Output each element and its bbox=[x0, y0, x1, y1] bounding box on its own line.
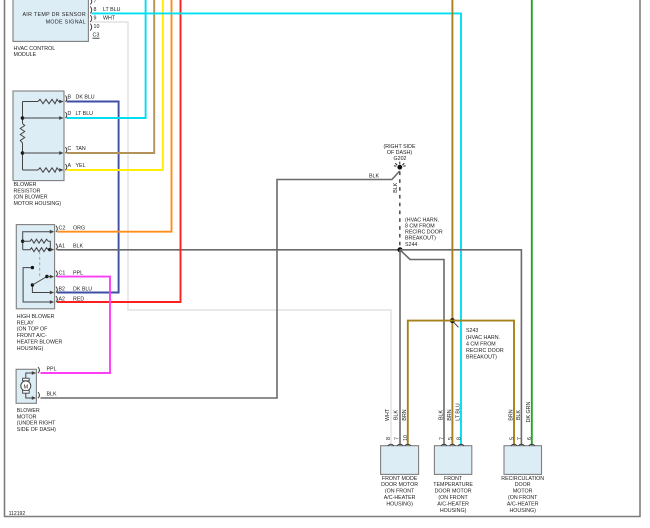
relay coil winding 1 bbox=[23, 239, 51, 249]
page border right bbox=[639, 0, 641, 517]
svg-text:B2: B2 bbox=[59, 287, 66, 293]
svg-text:BLK: BLK bbox=[47, 392, 57, 398]
pin 7 BLK (recirc motor) bbox=[516, 410, 525, 446]
wire LT BLU pin8 module to front temp door motor pin 8 bbox=[92, 13, 462, 445]
pin BLK (blower motor) bbox=[38, 392, 57, 399]
wire BLK S244 to front mode door motor pin 7 bbox=[399, 250, 401, 445]
wire BRN trunk from top to splice S243 and front temp motor pin 5 bbox=[451, 0, 453, 445]
pin 8 WHT (front mode motor) bbox=[385, 408, 394, 445]
node dot relay fixed contact A2 side bbox=[31, 266, 34, 269]
svg-text:BREAKOUT): BREAKOUT) bbox=[466, 355, 497, 361]
svg-text:8 CM FROM: 8 CM FROM bbox=[405, 224, 435, 230]
svg-text:C: C bbox=[68, 146, 72, 152]
relay switch armature bbox=[32, 277, 47, 286]
wire BLK blower motor to ground G202 bbox=[41, 171, 400, 398]
svg-text:FRONT MODE: FRONT MODE bbox=[382, 476, 418, 482]
pin 7 BLK (front temp motor) bbox=[438, 410, 447, 446]
high blower relay K1 box bbox=[16, 225, 62, 352]
svg-text:S244: S244 bbox=[405, 242, 417, 248]
splice S243 bbox=[450, 318, 504, 361]
svg-text:C2: C2 bbox=[59, 226, 66, 232]
svg-text:HOUSING): HOUSING) bbox=[386, 501, 413, 507]
svg-text:5: 5 bbox=[509, 437, 515, 440]
svg-text:B: B bbox=[68, 95, 72, 101]
pin 10 (hvac module) bbox=[90, 24, 99, 31]
svg-text:BLK: BLK bbox=[394, 410, 400, 420]
node dot relay coil / A1 bbox=[48, 248, 51, 251]
relay B2 internal wire bbox=[32, 285, 54, 294]
connector C3 label bbox=[93, 33, 100, 39]
pin PPL (blower motor) bbox=[38, 367, 57, 374]
svg-text:D: D bbox=[68, 111, 72, 117]
blower motor brush terminal bottom bbox=[23, 390, 30, 393]
pin A1 (relay) bbox=[56, 244, 84, 250]
svg-text:6: 6 bbox=[527, 437, 533, 440]
svg-text:MOTOR: MOTOR bbox=[17, 414, 37, 420]
svg-text:RELAY: RELAY bbox=[17, 320, 34, 326]
pin B (blower resistor) bbox=[65, 95, 94, 102]
svg-text:M: M bbox=[23, 384, 28, 390]
svg-text:BLK: BLK bbox=[73, 244, 83, 250]
svg-text:ORG: ORG bbox=[73, 226, 85, 232]
wire WHT pin9 module to front mode door motor pin 8 bbox=[92, 22, 392, 445]
svg-text:(HVAC HARN.: (HVAC HARN. bbox=[405, 217, 439, 223]
svg-text:G202: G202 bbox=[394, 156, 407, 162]
svg-text:A1: A1 bbox=[59, 244, 66, 250]
svg-text:BLOWER: BLOWER bbox=[17, 408, 40, 414]
wire pin D line internal bbox=[23, 116, 64, 120]
blower motor internal wire to BLK pin bbox=[26, 393, 36, 400]
svg-text:RECIRC DOOR: RECIRC DOOR bbox=[466, 348, 504, 354]
pin B2 (relay) bbox=[56, 287, 92, 293]
svg-text:10: 10 bbox=[403, 435, 409, 441]
relay coil winding 2 bbox=[23, 248, 50, 252]
svg-text:7: 7 bbox=[395, 437, 401, 440]
svg-text:DK BLU: DK BLU bbox=[73, 287, 92, 293]
pin 7 (hvac module) bbox=[90, 0, 96, 5]
node dot relay C1 contact bbox=[45, 275, 48, 278]
svg-text:(ON FRONT: (ON FRONT bbox=[508, 495, 538, 501]
svg-text:8: 8 bbox=[456, 437, 462, 440]
wire ORG relay C2 up off page bbox=[57, 0, 172, 232]
svg-text:DOOR MOTOR: DOOR MOTOR bbox=[381, 482, 418, 488]
wire DK BLU resistor B to relay B2 bbox=[57, 102, 119, 293]
recirculation door motor box bbox=[501, 446, 544, 514]
svg-text:BLK: BLK bbox=[516, 410, 522, 420]
svg-text:PPL: PPL bbox=[47, 367, 57, 373]
wire RED relay A2 up off page bbox=[57, 0, 181, 302]
ground G202 bbox=[384, 144, 416, 170]
pin 9 (hvac module) bbox=[90, 15, 116, 22]
svg-text:HOUSING): HOUSING) bbox=[509, 508, 536, 514]
svg-text:LT BLU: LT BLU bbox=[103, 7, 121, 13]
page border bottom bbox=[4, 516, 641, 518]
svg-text:C1: C1 bbox=[59, 271, 66, 277]
svg-text:7: 7 bbox=[439, 437, 445, 440]
svg-text:TAN: TAN bbox=[76, 146, 86, 152]
pin D (blower resistor) bbox=[65, 111, 93, 118]
wire BLK S244 to front temperature door motor pin 7 bbox=[400, 250, 444, 445]
svg-text:5: 5 bbox=[448, 437, 454, 440]
blower resistor R1 box bbox=[13, 91, 64, 207]
svg-text:WHT: WHT bbox=[103, 16, 116, 22]
relay A1 internal wire bbox=[50, 248, 54, 252]
svg-text:MODE SIGNAL: MODE SIGNAL bbox=[46, 20, 86, 26]
svg-text:7: 7 bbox=[517, 437, 523, 440]
svg-text:8: 8 bbox=[94, 7, 97, 13]
svg-text:A/C-HEATER: A/C-HEATER bbox=[437, 501, 469, 507]
pin 8 LT BLU (front temp motor) bbox=[455, 403, 464, 446]
wire BRN S243 to recirculation door motor pin 5 bbox=[452, 321, 514, 446]
wire label BLK (rotated, dashed run) bbox=[393, 182, 399, 192]
pin 6 DK GRN (recirc motor) bbox=[526, 402, 535, 446]
node dot pin D junction bbox=[21, 116, 25, 120]
svg-text:HEATER BLOWER: HEATER BLOWER bbox=[17, 340, 63, 346]
svg-text:4 CM FROM: 4 CM FROM bbox=[466, 342, 496, 348]
wire pin C line internal bbox=[23, 151, 64, 155]
pin C2 (relay) bbox=[56, 226, 85, 232]
svg-text:AIR TEMP DR SENSOR: AIR TEMP DR SENSOR bbox=[22, 12, 86, 18]
relay A2 internal wire bbox=[23, 268, 54, 304]
svg-text:(ON FRONT: (ON FRONT bbox=[385, 489, 415, 495]
svg-text:S243: S243 bbox=[466, 328, 478, 334]
svg-text:BLK: BLK bbox=[369, 174, 379, 180]
svg-text:A: A bbox=[68, 163, 72, 169]
node dot pin C junction bbox=[21, 151, 25, 155]
svg-text:BLOWER: BLOWER bbox=[14, 182, 37, 188]
relay coil C2 internal wire bbox=[23, 230, 55, 250]
splice S244 bbox=[398, 217, 443, 252]
blower motor internal wire to PPL pin bbox=[26, 371, 36, 378]
svg-text:FRONT: FRONT bbox=[444, 476, 463, 482]
hvac control module U1 box bbox=[13, 0, 88, 58]
svg-text:DOOR: DOOR bbox=[515, 482, 531, 488]
svg-text:SIDE OF DASH): SIDE OF DASH) bbox=[17, 427, 56, 433]
relay actuator dashed link bbox=[39, 252, 41, 279]
pin A (blower resistor) bbox=[65, 163, 85, 170]
resistor element vertical (bus) bbox=[20, 124, 24, 144]
svg-text:PPL: PPL bbox=[73, 271, 83, 277]
wire BLK relay A1 to splice S244 bbox=[57, 249, 400, 251]
wire PPL relay C1 to blower motor bbox=[41, 277, 111, 373]
page number 112192 bbox=[9, 511, 26, 517]
wire DK GRN from top to recirculation door motor pin 6 bbox=[531, 0, 533, 445]
wire BLK S244 to recirculation door motor pin 7 bbox=[400, 250, 521, 445]
svg-text:HIGH BLOWER: HIGH BLOWER bbox=[17, 314, 55, 320]
front mode door motor box bbox=[381, 446, 419, 508]
svg-text:(HVAC HARN.: (HVAC HARN. bbox=[466, 335, 500, 341]
svg-text:7: 7 bbox=[94, 0, 97, 4]
svg-text:C3: C3 bbox=[93, 33, 100, 39]
svg-text:A/C-HEATER: A/C-HEATER bbox=[507, 501, 539, 507]
svg-text:BLK: BLK bbox=[393, 182, 399, 192]
pin C (blower resistor) bbox=[65, 146, 85, 153]
page border left bbox=[4, 0, 6, 517]
svg-text:RECIRC DOOR: RECIRC DOOR bbox=[405, 230, 443, 236]
node dot relay coil top bbox=[21, 240, 24, 243]
pin 10 BRN (front mode motor) bbox=[402, 409, 411, 445]
wire BLK dashed G202 to splice S244 bbox=[399, 172, 401, 250]
blower motor M1 box bbox=[16, 369, 56, 433]
svg-text:BRN: BRN bbox=[402, 409, 408, 420]
pin C1 (relay) bbox=[56, 271, 83, 277]
svg-text:BLK: BLK bbox=[438, 410, 444, 420]
wire BRN S243 to front mode door motor pin 10 bbox=[408, 321, 453, 446]
svg-text:HOUSING): HOUSING) bbox=[17, 346, 44, 352]
svg-text:10: 10 bbox=[94, 24, 100, 30]
node dot relay armature pivot bbox=[31, 283, 34, 286]
svg-text:BRN: BRN bbox=[508, 409, 514, 420]
svg-text:LT BLU: LT BLU bbox=[76, 111, 94, 117]
pin 8 (hvac module) bbox=[90, 6, 120, 13]
svg-text:RECIRCULATION: RECIRCULATION bbox=[501, 476, 544, 482]
svg-text:BREAKOUT): BREAKOUT) bbox=[405, 236, 436, 242]
pin 5 BRN (recirc motor) bbox=[508, 409, 517, 445]
svg-text:DK GRN: DK GRN bbox=[526, 402, 532, 423]
svg-text:(RIGHT SIDE: (RIGHT SIDE bbox=[384, 144, 416, 150]
svg-text:MODULE: MODULE bbox=[14, 52, 37, 58]
svg-text:(ON TOP OF: (ON TOP OF bbox=[17, 327, 48, 333]
svg-text:BRN: BRN bbox=[447, 409, 453, 420]
blower motor armature circle bbox=[21, 381, 31, 391]
svg-text:MOTOR HOUSING): MOTOR HOUSING) bbox=[14, 201, 62, 207]
wire label BLK (ground run) bbox=[369, 174, 379, 180]
wire YEL resistor A up off page bbox=[67, 0, 163, 170]
blower motor brush terminal top bbox=[23, 378, 30, 381]
svg-text:OF DASH): OF DASH) bbox=[387, 150, 413, 156]
resistor element pin A line bbox=[23, 168, 64, 172]
svg-text:112192: 112192 bbox=[9, 511, 26, 517]
svg-text:(UNDER RIGHT: (UNDER RIGHT bbox=[17, 421, 56, 427]
svg-text:YEL: YEL bbox=[76, 163, 86, 169]
svg-text:HOUSING): HOUSING) bbox=[440, 508, 467, 514]
relay C1 internal wire bbox=[47, 275, 54, 279]
wire TAN resistor C up off page bbox=[67, 0, 155, 153]
svg-text:(ON FRONT: (ON FRONT bbox=[438, 495, 468, 501]
svg-text:A/C-HEATER: A/C-HEATER bbox=[384, 495, 416, 501]
resistor element pin B line bbox=[23, 99, 64, 103]
svg-text:MOTOR: MOTOR bbox=[513, 489, 533, 495]
svg-text:DOOR MOTOR: DOOR MOTOR bbox=[435, 489, 472, 495]
svg-text:DK BLU: DK BLU bbox=[76, 95, 95, 101]
pin 7 BLK (front mode motor) bbox=[394, 410, 403, 446]
wire LT BLU resistor D up off page bbox=[67, 0, 146, 118]
front temperature door motor box bbox=[433, 446, 473, 514]
svg-text:9: 9 bbox=[94, 16, 97, 22]
svg-text:WHT: WHT bbox=[385, 408, 391, 421]
svg-text:FRONT A/C-: FRONT A/C- bbox=[17, 333, 47, 339]
svg-text:LT BLU: LT BLU bbox=[455, 403, 461, 421]
pin 5 BRN (front temp motor) bbox=[447, 409, 456, 445]
svg-text:TEMPERATURE: TEMPERATURE bbox=[433, 482, 473, 488]
svg-text:(ON BLOWER: (ON BLOWER bbox=[14, 195, 48, 201]
svg-text:8: 8 bbox=[386, 437, 392, 440]
pin A2 (relay) bbox=[56, 296, 84, 303]
resistor internal bus wire bbox=[22, 102, 24, 171]
svg-text:RESISTOR: RESISTOR bbox=[14, 188, 41, 194]
